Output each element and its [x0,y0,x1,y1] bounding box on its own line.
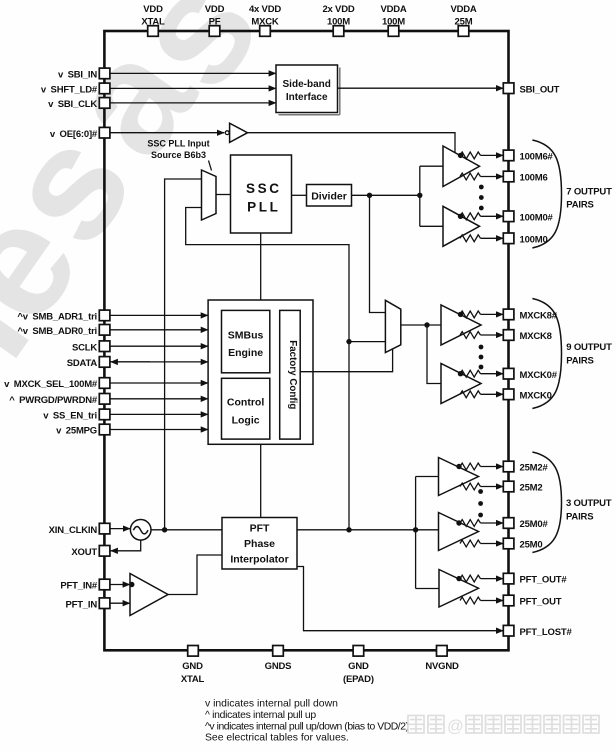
svg-text:MXCK8#: MXCK8# [520,311,558,322]
svg-text:PAIRS: PAIRS [566,512,593,523]
svg-text:Control: Control [227,397,264,409]
svg-text:Divider: Divider [311,190,347,202]
svg-text:v SS_EN_tri: v SS_EN_tri [43,411,97,422]
svg-text:PFT: PFT [250,523,270,535]
svg-text:100M6#: 100M6# [520,152,554,163]
svg-text:SCLK: SCLK [72,342,97,353]
svg-text:Source B6b3: Source B6b3 [151,150,206,160]
svg-text:v OE[6:0]#: v OE[6:0]# [50,129,98,140]
svg-text:XIN_CLKIN: XIN_CLKIN [49,525,98,536]
svg-text:NVGND: NVGND [425,661,459,672]
svg-text:2x VDD: 2x VDD [322,4,354,15]
svg-text:VDD: VDD [143,4,163,15]
svg-text:VDDA: VDDA [380,4,406,15]
svg-text:v indicates internal pull down: v indicates internal pull down [205,698,338,709]
svg-text:MXCK8: MXCK8 [520,331,552,342]
svg-text:v SHFT_LD#: v SHFT_LD# [41,85,98,96]
svg-text:3 OUTPUT: 3 OUTPUT [566,498,612,509]
svg-text:^v SMB_ADR0_tri: ^v SMB_ADR0_tri [17,326,97,337]
svg-text:Interpolator: Interpolator [230,554,288,566]
svg-text:GNDS: GNDS [265,661,292,672]
svg-text:PLL: PLL [247,200,280,215]
svg-text:PAIRS: PAIRS [566,356,593,367]
svg-text:SDATA: SDATA [67,358,98,369]
svg-text:25M0: 25M0 [520,540,543,551]
svg-text:^v indicates internal pull up/: ^v indicates internal pull up/down (bias… [205,721,409,732]
svg-text:SMBus: SMBus [228,329,264,341]
svg-text:4x VDD: 4x VDD [249,4,281,15]
svg-text:v 25MPG: v 25MPG [56,426,97,437]
svg-text:25M: 25M [455,17,473,28]
svg-text:PAIRS: PAIRS [566,199,593,210]
svg-text:100M0: 100M0 [520,234,548,245]
svg-text:v MXCK_SEL_100M#: v MXCK_SEL_100M# [4,379,98,390]
svg-text:MXCK0#: MXCK0# [520,370,558,381]
svg-text:100M6: 100M6 [520,173,548,184]
svg-text:Phase: Phase [244,538,275,550]
svg-text:100M: 100M [382,17,405,28]
svg-text:GND: GND [348,661,369,672]
svg-text:PFT_LOST#: PFT_LOST# [520,627,573,638]
svg-text:^ indicates internal pull up: ^ indicates internal pull up [205,710,316,721]
svg-text:XOUT: XOUT [71,547,97,558]
svg-text:XTAL: XTAL [141,17,165,28]
svg-text:GND: GND [182,661,203,672]
svg-text:SBI_OUT: SBI_OUT [520,84,560,95]
svg-text:Side-band: Side-band [283,79,331,90]
svg-text:PFT_IN: PFT_IN [65,599,97,610]
svg-text:Interface: Interface [286,92,328,103]
svg-text:PFT_OUT: PFT_OUT [520,597,562,608]
svg-text:PFT_OUT#: PFT_OUT# [520,575,568,586]
svg-text:MXCK: MXCK [251,17,279,28]
svg-text:^v SMB_ADR1_tri: ^v SMB_ADR1_tri [17,312,97,323]
svg-text:v SBI_CLK: v SBI_CLK [48,99,97,110]
svg-text:PF: PF [209,17,221,28]
svg-text:v SBI_IN: v SBI_IN [58,70,97,81]
svg-text:25M0#: 25M0# [520,519,549,530]
svg-text:Logic: Logic [232,415,260,427]
svg-text:(EPAD): (EPAD) [343,674,374,685]
svg-text:7 OUTPUT: 7 OUTPUT [566,186,612,197]
svg-text:XTAL: XTAL [181,674,205,685]
svg-text:MXCK0: MXCK0 [520,390,552,401]
svg-text:VDD: VDD [205,4,225,15]
svg-text:SSC: SSC [246,181,282,196]
svg-text:VDDA: VDDA [450,4,476,15]
svg-text:25M2#: 25M2# [520,463,549,474]
svg-text:^ PWRGD/PWRDN#: ^ PWRGD/PWRDN# [9,395,98,406]
svg-text:Engine: Engine [228,347,263,359]
svg-text:9 OUTPUT: 9 OUTPUT [566,342,612,353]
svg-text:PFT_IN#: PFT_IN# [60,581,98,592]
svg-text:Factory Config: Factory Config [287,340,298,409]
svg-text:25M2: 25M2 [520,483,543,494]
svg-text:See electrical tables for valu: See electrical tables for values. [205,733,349,744]
svg-text:@: @ [447,718,464,736]
svg-text:SSC PLL Input: SSC PLL Input [147,139,209,149]
svg-text:100M: 100M [327,17,350,28]
svg-text:100M0#: 100M0# [520,212,554,223]
